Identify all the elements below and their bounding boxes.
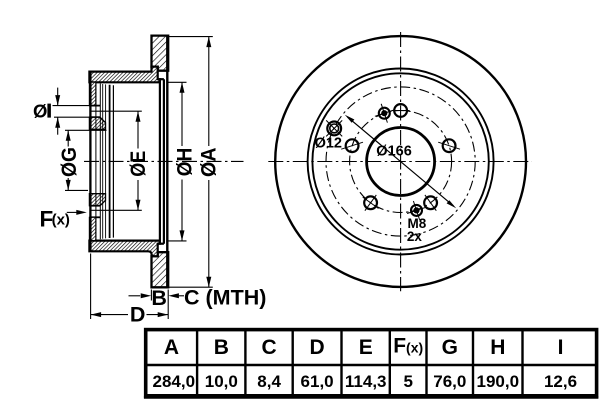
- B right arrow: [168, 293, 179, 298]
- OH top arrow: [180, 82, 185, 93]
- OI arrow stems: [57, 88, 59, 106]
- drum edge line: [163, 79, 165, 244]
- bore step line 1: [99, 84, 101, 240]
- bore step line 2: [102, 84, 104, 239]
- friction band chamfer circle: [308, 69, 494, 255]
- outer circle: [275, 36, 526, 287]
- O166 dimension line: [345, 115, 456, 209]
- arrowheads left view: [55, 37, 211, 318]
- F(x) arrow: [76, 210, 87, 215]
- hat wall upper segment: [89, 82, 96, 105]
- svg-text:2x: 2x: [407, 229, 423, 244]
- bolt circle (dash-dot): [350, 111, 452, 213]
- bolt hole 306deg: [424, 196, 437, 209]
- OG top arrow: [66, 130, 71, 141]
- svg-text:10,0: 10,0: [205, 372, 238, 391]
- svg-text:H: H: [490, 336, 505, 359]
- svg-text:D: D: [130, 303, 146, 327]
- labels right view: [315, 135, 427, 244]
- hat wall lower segment: [89, 217, 96, 240]
- bore step line 3: [105, 84, 107, 238]
- svg-text:C: C: [262, 336, 277, 359]
- OI extension lines: [53, 105, 101, 107]
- M8 hole lower (288.6deg): [411, 205, 422, 216]
- OH extension lines: [169, 81, 187, 83]
- svg-text:Ø: Ø: [33, 101, 47, 122]
- D left arrow: [91, 312, 102, 317]
- OG bottom arrow: [66, 180, 71, 191]
- notch bottom edge (top): [158, 78, 164, 80]
- OA extension lines: [169, 36, 213, 38]
- svg-text:B: B: [214, 336, 229, 359]
- axis centerline: [84, 160, 244, 162]
- OE extension lines: [90, 110, 142, 112]
- svg-text:Ø166: Ø166: [376, 144, 411, 160]
- svg-text:61,0: 61,0: [301, 372, 334, 391]
- OG extension lines: [65, 129, 107, 131]
- labels left view: [33, 101, 266, 327]
- extension line ring left: [150, 290, 152, 301]
- M8 hole upper (108.6deg): [379, 108, 390, 119]
- table outer border: [146, 330, 597, 396]
- svg-text:(x): (x): [52, 212, 70, 229]
- svg-text:ØE: ØE: [126, 151, 150, 177]
- notch top edge (bottom): [158, 243, 164, 245]
- hat top flange band: [89, 67, 159, 83]
- O12 hole: [326, 120, 342, 136]
- svg-text:284,0: 284,0: [153, 372, 196, 391]
- bolt hole 162deg: [346, 139, 359, 152]
- svg-text:Ø12: Ø12: [315, 135, 342, 151]
- disc ring section, bottom block: [152, 252, 169, 287]
- hub bore inner face: [95, 83, 97, 240]
- bolt hole (upper) boundary lines: [89, 105, 100, 107]
- bolt hole 234deg: [364, 196, 377, 209]
- svg-text:C (MTH): C (MTH): [184, 286, 266, 310]
- table row line: [144, 364, 597, 366]
- O166 circle (dash-dot): [326, 87, 475, 236]
- OG arrow stem: [67, 130, 69, 146]
- M8 holes: [375, 104, 426, 220]
- svg-text:ØG: ØG: [57, 147, 81, 177]
- OH bottom arrow: [180, 230, 185, 241]
- arrowhead lower-right: [447, 200, 457, 208]
- svg-text:A: A: [164, 336, 179, 359]
- svg-text:ØA: ØA: [196, 147, 220, 177]
- hat cylinder inner wall: [109, 85, 111, 238]
- svg-text:ØH: ØH: [172, 148, 196, 177]
- hat outer mounting face: [89, 72, 91, 252]
- OA top arrow: [206, 37, 211, 48]
- F(x) leader line: [67, 211, 79, 213]
- svg-text:D: D: [310, 336, 325, 359]
- OI bottom arrow: [55, 117, 60, 128]
- table column lines: [196, 330, 198, 397]
- svg-text:I: I: [558, 336, 564, 359]
- center hole circle: [367, 128, 435, 196]
- svg-text:8,4: 8,4: [257, 372, 281, 391]
- OH arrow stem: [181, 82, 183, 146]
- drum surface line: [159, 79, 161, 244]
- extension line hat face: [90, 254, 92, 320]
- svg-text:B: B: [151, 286, 167, 310]
- bolt hole top (90deg): [394, 104, 407, 117]
- OA arrow stem: [208, 37, 210, 146]
- svg-text:190,0: 190,0: [477, 372, 520, 391]
- svg-text:114,3: 114,3: [345, 372, 387, 391]
- arrowhead upper-left: [345, 115, 355, 123]
- ring inner face line: [166, 36, 168, 288]
- bolt hole 18deg: [443, 139, 456, 152]
- wheel bolt holes: [341, 104, 460, 211]
- extension line ring right: [167, 290, 169, 320]
- B left arrow: [141, 293, 152, 298]
- svg-text:5: 5: [403, 372, 412, 391]
- svg-text:E: E: [359, 336, 373, 359]
- OI top arrow: [55, 95, 60, 106]
- OA bottom arrow: [206, 277, 211, 288]
- svg-text:G: G: [442, 336, 458, 359]
- svg-text:76,0: 76,0: [433, 372, 466, 391]
- svg-text:12,6: 12,6: [544, 372, 577, 391]
- OE bottom arrow: [136, 200, 141, 211]
- OE arrow stem: [137, 111, 139, 148]
- disc ring section, top block: [152, 36, 169, 71]
- vertical centerline: [400, 32, 402, 291]
- hub boss lower: [89, 194, 105, 206]
- B arrow stems: [129, 295, 141, 297]
- bore step line 4: [112, 85, 114, 237]
- D right arrow: [158, 312, 169, 317]
- hub boss upper: [89, 117, 105, 129]
- D dimension line: [91, 314, 128, 316]
- bolt hole (lower) boundary lines: [89, 205, 100, 207]
- OE top arrow: [136, 111, 141, 122]
- hat diameter circle: [312, 73, 488, 249]
- horizontal centerline: [268, 161, 532, 163]
- hat bottom flange band: [89, 241, 159, 257]
